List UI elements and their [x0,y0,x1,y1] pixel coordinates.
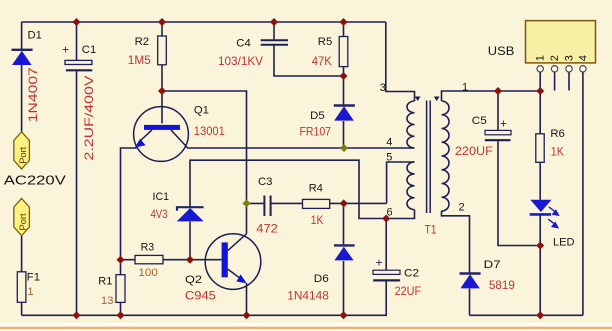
svg-text:3: 3 [380,82,386,94]
svg-text:5: 5 [386,151,392,163]
resistor R3 body [135,255,163,263]
svg-text:472: 472 [256,221,278,235]
wire D1 cathode to Port P1 [21,65,23,132]
capacitor C4 plates [261,40,288,45]
svg-text:C5: C5 [472,115,487,127]
svg-text:220UF: 220UF [455,144,493,158]
svg-text:D1: D1 [28,30,42,42]
svg-text:1K: 1K [311,213,324,227]
svg-text:+: + [62,43,69,57]
svg-text:R2: R2 [135,36,149,48]
svg-text:13001: 13001 [194,124,225,138]
resistor R6 body [536,134,544,163]
node R2 top [158,18,166,26]
node R3 R1 Q1 emitter [117,256,125,264]
svg-text:FR107: FR107 [300,124,332,138]
USB connector body [526,21,596,63]
wire R5 top lead [343,22,345,37]
diode D7 [460,274,479,288]
svg-text:22UF: 22UF [395,284,422,298]
wire transformer pin 5 route to R4 [387,162,415,203]
wire D1 anode from top-left corner [21,22,23,49]
wire pin6 node to C2 positive [385,219,387,271]
transistor Q1 [134,107,189,162]
wire IC1 anode lead [189,222,191,260]
port P1 AC input [14,132,30,169]
svg-text:C945: C945 [185,288,216,302]
svg-text:1: 1 [462,81,468,93]
wire D5 cathode lead [343,76,345,105]
wire Q2 emitter to ground rail [246,283,248,315]
capacitor C3 plates [264,196,270,217]
svg-text:Q2: Q2 [185,274,202,286]
resistor R5 body [339,37,348,67]
wire top rail [22,21,386,23]
zener diode IC1 [177,208,204,221]
wire IC1 cathode route to pin6 node [190,160,386,218]
wire Q2 collector vertical [246,203,248,233]
svg-text:1N4148: 1N4148 [287,288,329,302]
wire F1 to ground rail [21,302,23,315]
wire USB pin 1 to R6 [539,72,541,134]
svg-text:103/1KV: 103/1KV [218,54,263,68]
node C1 top [73,18,81,26]
capacitor C5 positive plate [485,130,511,134]
svg-text:4: 4 [386,137,392,149]
svg-text:R5: R5 [318,36,332,48]
svg-text:C4: C4 [236,38,250,50]
wire Q2 collector node to C3 [247,202,265,204]
svg-text:2.2UF/400V: 2.2UF/400V [82,76,96,161]
wire Q1 emitter down to R3 node [121,148,137,260]
transformer T1 aux winding pins 5-6 [407,162,414,210]
wire primary ground rail to C2 [22,281,387,315]
USB pin 1 circle [537,66,543,72]
capacitor C1 negative plate [66,69,92,71]
svg-text:USB: USB [488,44,515,58]
wire C4 top lead [273,22,275,39]
svg-text:1: 1 [535,55,547,61]
svg-text:Q1: Q1 [194,104,209,116]
svg-text:LED: LED [553,236,575,248]
wire D6 cathode lead [343,203,345,244]
svg-text:1M5: 1M5 [128,53,151,67]
svg-text:AC220V: AC220V [4,173,66,188]
node R1 ground [117,311,125,319]
node Q1 base [158,87,166,95]
transformer polarity mark primary [415,97,421,102]
svg-text:100: 100 [138,267,158,279]
wire R5 bottom lead [343,67,345,76]
diode D5 [334,106,354,120]
transistor Q2 [205,234,261,290]
resistor R4 body [303,199,330,208]
wire R3 right lead to Q2 base [163,259,222,261]
svg-text:4: 4 [577,55,589,61]
svg-text:Port: Port [18,213,28,230]
node C5 top [494,87,502,95]
wire R6 to LED anode [539,162,541,200]
USB pin 3 circle [566,66,572,72]
svg-text:R1: R1 [98,276,112,288]
svg-text:Port: Port [18,146,28,163]
capacitor C2 negative plate [373,279,400,281]
svg-text:4V3: 4V3 [151,207,168,221]
wire R2 bottom lead to Q1 base [161,65,163,124]
wire C5 bottom route to ground node [498,141,540,245]
node R4 D6 pin5 [340,199,348,207]
node D5 anode pin4 (olive) [340,144,348,152]
capacitor C5 negative plate [485,139,511,141]
wire LED cathode to secondary ground [539,214,541,316]
svg-text:C3: C3 [258,176,272,188]
wire R2 top lead [161,22,163,36]
svg-text:C1: C1 [82,44,96,56]
svg-text:5819: 5819 [489,278,515,292]
node R5 top [340,18,348,26]
wire transformer pin 2 to D7 anode [442,211,470,273]
transformer polarity mark secondary [434,97,440,102]
USB pin 2 circle [551,66,557,72]
svg-text:+: + [500,117,507,131]
wire Q1 base node to Q2 collector node [162,91,247,203]
svg-text:1N4007: 1N4007 [26,67,40,122]
wire USB pin 3 stub [568,72,570,91]
wire C3 to R4 [271,202,303,204]
node LED ground [536,311,544,319]
node C1 ground [73,311,81,319]
svg-text:R6: R6 [550,128,564,140]
svg-text:3: 3 [563,55,575,61]
fuse F1 body [17,272,26,303]
wire D6 anode lead [343,261,345,315]
node Q2 collector C3 (olive) [243,199,251,207]
bottom tan divider line [0,327,612,329]
wire secondary ground rail [470,314,583,316]
wire C4 bottom route to R5 node [274,46,344,77]
resistor R1 body [116,275,125,303]
wire R3 left lead [121,259,136,261]
transformer T1 core line right [429,101,431,214]
svg-text:F1: F1 [27,271,40,283]
resistor R2 body [158,36,167,65]
transformer T1 core line left [426,101,428,214]
wire transformer pin 6 lead [386,210,414,219]
LED diode body [530,200,551,212]
USB pin 4 circle [580,66,586,72]
svg-text:D5: D5 [310,110,325,122]
svg-text:13: 13 [101,295,114,307]
wire R1 top lead [120,260,122,275]
node Q2 emitter ground [243,311,251,319]
wire top-right drop to transformer pin 3 [386,22,415,101]
svg-text:6: 6 [387,207,393,219]
svg-text:R3: R3 [141,242,155,254]
svg-text:+: + [376,256,383,270]
wire D7 cathode to secondary ground [469,289,471,316]
svg-text:2: 2 [459,201,465,213]
node D6 ground [340,311,348,319]
wire Port P2 to fuse F1 [21,236,23,272]
capacitor C2 positive plate [373,270,400,274]
LED emission arrows [548,207,558,228]
transformer T1 primary winding pins 3-4 [407,101,414,148]
node USB pin1 R6 [536,87,544,95]
node C4 top [270,18,278,26]
wire R1 bottom lead [120,302,122,315]
wire C1 bottom lead [76,71,78,315]
svg-text:C2: C2 [404,267,419,279]
diode D6 [334,247,353,261]
wire C1 top lead [76,22,78,60]
wire Q1 collector to transformer pin 4 [187,147,415,149]
port P2 AC input [14,198,30,235]
svg-text:IC1: IC1 [153,191,170,203]
diode D1 [12,51,32,65]
node pin6 C2 [382,215,390,223]
node IC1 anode Q2 base [186,256,194,264]
node R5 bottom D5 [340,72,348,80]
wire transformer pin 1 to USB pin 1 [442,91,541,101]
wire C5 top lead [497,91,499,130]
svg-text:2: 2 [549,55,561,61]
wire USB pin 2 stub [554,72,556,91]
svg-text:D7: D7 [484,259,501,271]
svg-text:47K: 47K [312,54,332,68]
wire D5 anode lead [343,121,345,148]
transformer T1 secondary winding pins 1-2 [442,101,450,211]
svg-text:R4: R4 [309,183,323,195]
node LED cathode C5 [536,242,544,250]
capacitor C1 positive plate [65,60,92,64]
svg-text:1K: 1K [551,145,564,159]
svg-text:T1: T1 [425,222,437,236]
svg-text:D6: D6 [314,273,329,285]
wire R4 to pin 5 corner [330,202,387,204]
svg-text:1: 1 [27,286,33,298]
wire USB pin 4 to secondary ground [582,72,584,315]
